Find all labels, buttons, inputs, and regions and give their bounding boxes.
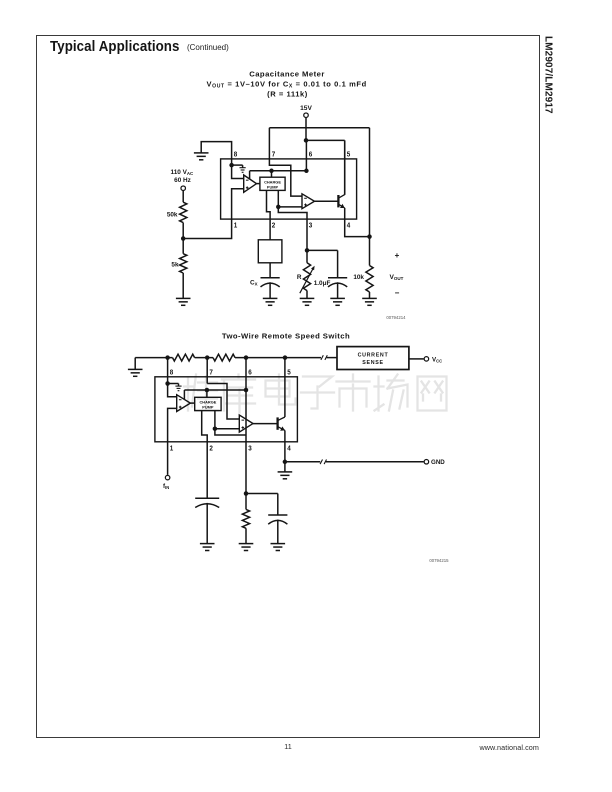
svg-text:10k: 10k — [353, 274, 364, 281]
svg-text:VOUT: VOUT — [390, 274, 404, 281]
svg-text:15V: 15V — [300, 105, 312, 112]
svg-text:00794214: 00794214 — [386, 315, 406, 320]
svg-text:6: 6 — [309, 151, 313, 158]
svg-text:00794215: 00794215 — [429, 558, 449, 563]
svg-text:Capacitance Meter: Capacitance Meter — [249, 69, 325, 78]
svg-text:SENSE: SENSE — [362, 360, 383, 366]
svg-text:5: 5 — [287, 369, 291, 376]
svg-text:1: 1 — [234, 222, 238, 229]
svg-text:4: 4 — [347, 222, 351, 229]
svg-text:CX: CX — [250, 280, 258, 287]
svg-text:3: 3 — [248, 445, 252, 452]
svg-text:VOUT = 1V–10V for CX = 0.01 to: VOUT = 1V–10V for CX = 0.01 to 0.1 mFd — [207, 79, 367, 89]
svg-text:8: 8 — [234, 151, 238, 158]
svg-text:5: 5 — [347, 151, 351, 158]
svg-text:R: R — [297, 274, 302, 281]
svg-text:2: 2 — [272, 222, 276, 229]
svg-text:7: 7 — [272, 151, 276, 158]
svg-text:PUMP: PUMP — [202, 405, 214, 410]
svg-text:1: 1 — [170, 445, 174, 452]
svg-text:3: 3 — [309, 222, 313, 229]
svg-text:GND: GND — [431, 459, 445, 466]
svg-text:8: 8 — [170, 369, 174, 376]
svg-text:VCC: VCC — [432, 356, 442, 363]
svg-text:2: 2 — [209, 445, 213, 452]
svg-text:PUMP: PUMP — [267, 184, 279, 189]
svg-text:5k: 5k — [171, 262, 179, 269]
svg-text:110 VAC: 110 VAC — [171, 169, 195, 176]
svg-text:50k: 50k — [167, 212, 178, 219]
svg-text:7: 7 — [209, 369, 213, 376]
svg-text:60 Hz: 60 Hz — [174, 177, 191, 184]
svg-text:1.0μF: 1.0μF — [314, 280, 331, 287]
svg-text:4: 4 — [287, 445, 291, 452]
svg-text:6: 6 — [248, 369, 252, 376]
svg-text:CURRENT: CURRENT — [358, 352, 389, 358]
svg-text:−: − — [395, 289, 400, 298]
svg-text:(R = 111k): (R = 111k) — [267, 89, 308, 98]
svg-text:+: + — [395, 251, 400, 260]
svg-text:fIN: fIN — [163, 483, 169, 490]
svg-text:Two-Wire Remote Speed Switch: Two-Wire Remote Speed Switch — [222, 331, 350, 340]
